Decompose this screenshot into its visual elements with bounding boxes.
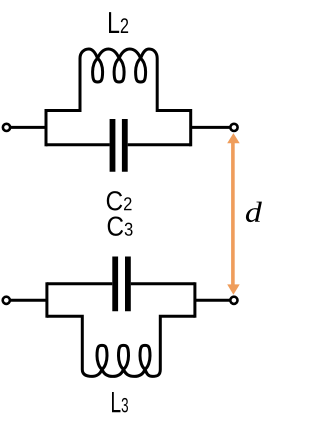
capacitor C2: [113, 119, 125, 172]
wire right terminal lead bottom: [195, 299, 230, 302]
label L2: [109, 12, 128, 33]
terminal right top: [230, 124, 237, 131]
dimension arrow d (distance between resonators): [227, 133, 240, 295]
inductor L2: [46, 49, 191, 111]
wire bottom-right of top resonator loop: [128, 143, 191, 146]
wire right edge of bottom resonator loop: [193, 282, 196, 317]
label L3: [112, 392, 128, 412]
wire right edge of top resonator loop: [189, 109, 192, 146]
capacitor C3: [115, 257, 128, 312]
wire top-right of bottom resonator loop: [131, 282, 195, 285]
label C2: [107, 191, 132, 210]
wire right terminal lead top: [191, 126, 230, 129]
label d: [246, 202, 262, 222]
terminal left top: [3, 124, 10, 131]
wire top-left of bottom resonator loop: [47, 282, 112, 285]
terminal right bottom: [230, 297, 237, 304]
inductor L3: [47, 316, 195, 376]
wire left edge of top resonator loop: [45, 109, 48, 146]
wire left edge of bottom resonator loop: [45, 282, 48, 317]
label C3: [108, 216, 133, 235]
wire left terminal lead top: [11, 126, 46, 129]
wire left terminal lead bottom: [11, 299, 47, 302]
wire bottom-left of top resonator loop: [46, 143, 110, 146]
terminal left bottom: [3, 297, 10, 304]
